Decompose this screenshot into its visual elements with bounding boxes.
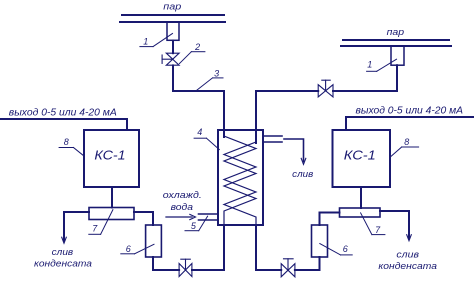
- wire right line into cooler: [255, 91, 257, 143]
- label 1 (right): [367, 59, 397, 71]
- label 2: [179, 42, 205, 63]
- wire cooler right outlet to valve: [256, 269, 281, 271]
- svg-text:конденсата: конденсата: [378, 261, 437, 272]
- tap nozzle 1 (left): [167, 22, 179, 40]
- label 6 (left): [121, 244, 154, 254]
- svg-text:слив: слив: [396, 249, 419, 260]
- wire output right: [346, 117, 474, 130]
- valve (right sampling line): [318, 80, 333, 97]
- label 8 (left): [59, 137, 84, 156]
- wire right sampling line horizontal: [333, 90, 397, 92]
- arrow cooling water inlet: [166, 216, 192, 218]
- arrow condensate right: [407, 235, 412, 241]
- wire drain слив: [284, 139, 304, 162]
- arrow condensate left: [62, 237, 67, 243]
- wire condensate drain left: [64, 212, 89, 241]
- cooling water outlet stub (double line): [263, 135, 282, 137]
- svg-text:выход 0-5 или 4-20 мА: выход 0-5 или 4-20 мА: [9, 107, 117, 118]
- wire right nozzle down: [396, 65, 398, 91]
- wire valve to filter6R: [295, 269, 320, 271]
- svg-text:6: 6: [343, 244, 348, 254]
- label 8 (right): [391, 137, 419, 157]
- wire valve2 down: [172, 65, 174, 91]
- wire sampling line 3 horizontal: [173, 90, 224, 92]
- cooler-condenser 4 (body): [218, 130, 263, 225]
- label 7 (right): [361, 213, 385, 235]
- label 6 (right): [320, 244, 352, 255]
- svg-text:слив: слив: [292, 169, 313, 180]
- svg-text:конденсата: конденсата: [34, 259, 92, 270]
- svg-text:слив: слив: [52, 247, 74, 258]
- svg-text:8: 8: [64, 137, 69, 147]
- steam header pipe right (double line): [343, 39, 449, 41]
- wire output left: [0, 119, 127, 130]
- wire cooler right outlet down: [255, 225, 257, 270]
- sensor 7 (right): [340, 208, 381, 217]
- valve (bottom left): [179, 259, 192, 276]
- wire nozzle1 to valve2: [172, 41, 174, 54]
- instrument KC-1 (right): [333, 130, 391, 187]
- valve 2 (needle valve, vertical): [162, 53, 179, 65]
- svg-text:выход 0-5 или 4-20 мА: выход 0-5 или 4-20 мА: [356, 106, 464, 117]
- arrow drain слив: [301, 158, 306, 164]
- svg-text:7: 7: [92, 223, 98, 233]
- svg-text:пар: пар: [387, 27, 405, 38]
- wire filter6R up to sensor 7R: [319, 213, 321, 226]
- label 3: [197, 69, 223, 91]
- coil A (left sampling line): [224, 136, 256, 225]
- svg-text:КС-1: КС-1: [344, 147, 376, 162]
- wire condensate drain right: [380, 211, 409, 238]
- svg-text:6: 6: [126, 244, 131, 254]
- tap nozzle 1 (right): [391, 46, 404, 65]
- wire KC-1 left to sensor 7L: [111, 187, 113, 208]
- svg-text:7: 7: [375, 225, 381, 235]
- svg-text:пар: пар: [163, 2, 181, 13]
- svg-text:1: 1: [367, 60, 372, 70]
- wire filter6L up to sensor 7L: [152, 212, 154, 225]
- filter 6 (right): [312, 225, 328, 257]
- label 7 (left): [89, 210, 113, 235]
- label 5: [185, 216, 208, 231]
- svg-text:КС-1: КС-1: [94, 148, 125, 163]
- svg-text:8: 8: [404, 137, 409, 147]
- wire cooler left outlet down: [223, 225, 225, 270]
- wire KC-1 right to sensor 7R: [360, 187, 362, 208]
- svg-text:2: 2: [194, 42, 200, 52]
- valve (bottom right): [281, 259, 295, 277]
- svg-text:5: 5: [191, 221, 197, 231]
- wire valve to cooler left outlet: [192, 269, 224, 271]
- sensor 7 (left): [89, 208, 134, 220]
- filter 6 (left): [146, 225, 162, 257]
- svg-text:охлажд.: охлажд.: [163, 190, 202, 201]
- svg-text:вода: вода: [171, 202, 193, 213]
- wire left line into cooler: [223, 91, 225, 137]
- coil B (right sampling line): [224, 142, 256, 225]
- wire filter6L to valve: [153, 269, 179, 271]
- instrument KC-1 (left): [84, 130, 139, 187]
- svg-text:3: 3: [214, 69, 219, 79]
- label 1 (left): [140, 34, 173, 47]
- cooling water inlet stub (double line): [199, 213, 219, 215]
- label 4: [194, 127, 219, 150]
- svg-text:1: 1: [143, 37, 148, 47]
- steam header pipe left (double line): [122, 14, 224, 16]
- svg-text:4: 4: [197, 127, 202, 137]
